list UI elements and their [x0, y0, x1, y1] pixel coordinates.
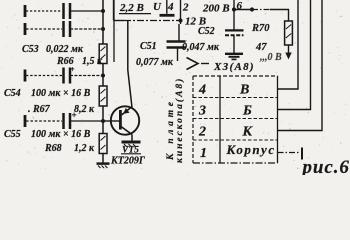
svg-text:В: В: [239, 83, 249, 98]
wire W1 top-left: [24, 5, 27, 17]
svg-text:1,2 к: 1,2 к: [74, 143, 95, 154]
wire row1 B: [278, 0, 299, 89]
arrow (voltage measure point): [285, 53, 291, 60]
node wire3/bus: [101, 74, 105, 78]
connector pin chevron X3: [187, 58, 199, 70]
svg-text:С53: С53: [22, 44, 39, 55]
node wire1/bus: [101, 9, 105, 13]
svg-text:0,077 мк: 0,077 мк: [136, 57, 174, 68]
svg-text:R68: R68: [44, 143, 62, 154]
wire W2: [24, 23, 27, 35]
svg-text:кинескопа(А8): кинескопа(А8): [174, 77, 185, 163]
svg-text:рис.6: рис.6: [301, 157, 350, 175]
wire pin2 / C51 lead: [179, 0, 181, 42]
capacitor C52: [233, 10, 235, 31]
svg-text:КТ209Г: КТ209Г: [110, 156, 146, 167]
svg-text:6: 6: [237, 0, 243, 12]
bus vertical: [102, 0, 104, 44]
wire W4: [24, 115, 27, 127]
svg-text:100 мк × 16 В: 100 мк × 16 В: [31, 88, 91, 99]
wire stub x114: [113, 0, 115, 62]
resistor R67: [99, 86, 107, 106]
svg-text:К: К: [242, 125, 254, 140]
svg-text:С51: С51: [140, 41, 157, 52]
capacitor C54: [64, 68, 71, 84]
svg-text:+: +: [72, 110, 77, 120]
resistor R68: [99, 134, 107, 154]
capacitor C53: [64, 21, 71, 37]
transistor VT5: [111, 106, 139, 134]
node wire4/bus: [101, 119, 105, 123]
svg-text:1: 1: [200, 146, 207, 161]
svg-text:0,022 мк: 0,022 мк: [46, 44, 84, 55]
node 12V: [178, 18, 182, 22]
svg-text:4: 4: [167, 1, 174, 13]
wire emitter drop: [128, 21, 132, 108]
wire row2: [278, 0, 311, 110]
wire row3 K: [278, 0, 323, 131]
wire 2.2V rail: [113, 0, 115, 21]
svg-text:+: +: [70, 65, 75, 74]
svg-text:0,047 мк: 0,047 мк: [182, 42, 220, 53]
svg-text:2: 2: [198, 125, 206, 140]
svg-text:4: 4: [198, 83, 206, 98]
svg-text:U: U: [153, 1, 162, 13]
svg-text:R70: R70: [251, 23, 270, 34]
svg-text:С55: С55: [4, 129, 21, 140]
svg-text:ХЗ(А8): ХЗ(А8): [213, 61, 255, 73]
svg-text:1,5 к: 1,5 к: [82, 56, 103, 67]
wire pin6 / 200V rail: [233, 0, 235, 10]
capacitor C51: [167, 40, 186, 43]
ground (bus bottom): [97, 162, 110, 165]
svg-text:2: 2: [182, 2, 189, 14]
connector table X3(A8): [193, 75, 278, 77]
ground (VT5 emitter): [122, 141, 141, 144]
svg-text:3: 3: [198, 104, 206, 119]
capacitor (top, unlabeled): [64, 3, 71, 19]
resistor R66: [99, 44, 107, 64]
wire row4 chassis: [278, 152, 301, 154]
resistor R70: [285, 21, 293, 45]
wire W3: [24, 70, 27, 82]
svg-text:С52: С52: [198, 26, 215, 37]
svg-text:200 В: 200 В: [202, 3, 230, 15]
svg-text:100 мк × 16 В: 100 мк × 16 В: [31, 129, 91, 140]
svg-text:,,,0 В: ,,,0 В: [259, 52, 282, 63]
capacitor C55: [64, 113, 71, 129]
ground (C52): [225, 53, 243, 55]
svg-text:Корпус: Корпус: [226, 142, 276, 157]
ground (top, near U): [166, 0, 168, 14]
node wire2/bus: [101, 27, 105, 31]
svg-text:8,2 к: 8,2 к: [74, 104, 95, 115]
svg-text:. R67: . R67: [28, 104, 51, 115]
svg-text:Б: Б: [242, 104, 252, 119]
svg-text:С54: С54: [4, 88, 21, 99]
